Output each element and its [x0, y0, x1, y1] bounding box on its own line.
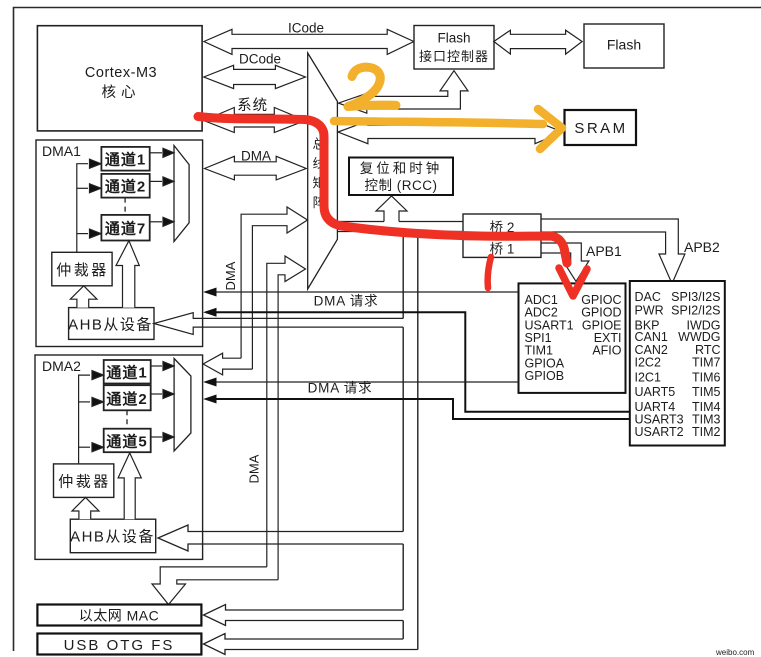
svg-text:ICode: ICode: [288, 20, 324, 35]
wire B bottom channel and down arrow into MAC: [152, 567, 278, 605]
svg-text:APB2: APB2: [684, 239, 720, 255]
wire A: DMA2 master port wire to matrix (vertical pair x 241/252): [203, 207, 307, 375]
wire B: matrix to ethernet MAC (vertical pair x 267/278): [152, 256, 306, 605]
svg-text:DAC: DAC: [635, 290, 661, 304]
svg-text:接口控制器: 接口控制器: [419, 49, 489, 64]
svg-text:AFIO: AFIO: [592, 344, 621, 358]
svg-text:控制 (RCC): 控制 (RCC): [365, 178, 438, 193]
SRAM box: [565, 110, 637, 145]
svg-text:AHB从设备: AHB从设备: [68, 317, 153, 334]
red arrowhead down into APB1: [559, 268, 587, 296]
orange long arrow to SRAM: [334, 121, 543, 124]
svg-text:APB1: APB1: [586, 243, 622, 259]
svg-text:TIM6: TIM6: [692, 370, 721, 384]
svg-text:UART5: UART5: [635, 385, 676, 399]
svg-text:系统: 系统: [237, 97, 268, 114]
svg-text:DMA2: DMA2: [42, 358, 81, 374]
svg-text:仲裁器: 仲裁器: [56, 262, 109, 279]
ethernet MAC box: [37, 605, 201, 626]
svg-text:USB OTG FS: USB OTG FS: [64, 637, 175, 654]
APB2 wire from bridge2 to APB2 peripherals: [541, 219, 685, 284]
DMA2 channel2 box: [104, 385, 151, 410]
DMA2 arbiter box: [54, 464, 114, 498]
V1 right vertical: [417, 232, 419, 650]
svg-text:DCode: DCode: [239, 52, 281, 67]
DMA2 channel1 box: [104, 360, 151, 384]
svg-text:SPI2/I2S: SPI2/I2S: [671, 304, 720, 318]
DMA1 AHB slave arrow from V1 wire: [154, 313, 403, 335]
svg-text:DMA1: DMA1: [42, 143, 81, 159]
DMA2 arbiter feeder line and arrows: [79, 371, 104, 464]
svg-text:DMA: DMA: [241, 149, 271, 164]
svg-text:桥 1: 桥 1: [490, 242, 515, 257]
APB1 wire from bridge1 to APB1 peripherals: [541, 243, 589, 281]
svg-text:复位和时钟: 复位和时钟: [360, 160, 443, 176]
DMA1 AHB to channel7 hollow up arrow: [116, 241, 139, 308]
red annotation: system path stroke: [198, 117, 587, 297]
RCC box: [349, 158, 453, 196]
svg-text:TIM2: TIM2: [692, 425, 721, 439]
DMA1 arbiter box: [52, 252, 112, 285]
DMA request line 1 bold (to APB2 box): [203, 308, 630, 412]
svg-text:TIM7: TIM7: [692, 356, 721, 370]
DMA1 arbiter feeder line and arrows: [77, 159, 101, 252]
DCode bus double arrow: [204, 52, 306, 89]
wire B top arrow into matrix: [267, 256, 306, 580]
DMA2 outer box: [35, 355, 203, 559]
DMA1 channel2 box: [101, 174, 149, 198]
Cortex-M3 core box: [37, 26, 202, 131]
svg-text:GPIOB: GPIOB: [525, 369, 565, 383]
svg-text:I2C2: I2C2: [635, 356, 661, 370]
DMA request line 2 (thin, to APB1 box): [203, 378, 518, 387]
svg-text:通道1: 通道1: [106, 364, 147, 382]
ICode bus double arrow: [204, 20, 414, 54]
Flash memory box: [584, 24, 664, 68]
svg-text:仲裁器: 仲裁器: [58, 474, 111, 491]
svg-text:Flash: Flash: [437, 31, 470, 46]
svg-text:DMA: DMA: [223, 261, 238, 290]
DMA request line 2 bold (to APB2 box): [203, 395, 630, 420]
ethernet MAC arrow from V1: [204, 605, 404, 626]
svg-text:SPI3/I2S: SPI3/I2S: [671, 290, 720, 304]
bridge 1 box: [463, 239, 541, 257]
DMA1 channel7 box: [101, 215, 149, 241]
DMA2 channel to funnel arrows: [151, 362, 174, 442]
bridge 2 box: [463, 214, 541, 239]
svg-text:weibo.com: weibo.com: [715, 648, 755, 657]
DMA1 funnel: [174, 146, 189, 242]
svg-text:USART2: USART2: [635, 425, 684, 439]
svg-text:TIM5: TIM5: [692, 385, 721, 399]
wire matrix to SRAM double arrow: [338, 121, 563, 144]
dashed line channels DMA1: [124, 198, 126, 215]
svg-text:通道5: 通道5: [106, 433, 147, 451]
wire V1: bridge wire down to DMA1 AHB / DMA2 AHB / MAC / USB: [403, 232, 418, 650]
DMA2 AHB to arbiter hollow up arrow: [72, 497, 99, 519]
bus matrix shape: [308, 53, 338, 289]
DMA1 channel1 box: [101, 147, 149, 171]
Flash interface controller box: [414, 26, 494, 70]
DMA2 channel5 box: [104, 429, 151, 453]
APB1 peripheral box: [519, 283, 626, 393]
Flash ctrl to Flash double arrow: [494, 30, 582, 54]
svg-text:SRAM: SRAM: [574, 120, 627, 137]
svg-text:通道2: 通道2: [106, 390, 147, 408]
RCC up arrow from bridge wire: [376, 196, 407, 222]
svg-text:Cortex-M3: Cortex-M3: [85, 65, 157, 81]
orange annotation: handwritten 2: [334, 67, 562, 149]
svg-text:PWR: PWR: [635, 304, 664, 318]
svg-text:DMA 请求: DMA 请求: [308, 381, 373, 396]
system bus double arrow: [204, 97, 306, 133]
DMA1 AHB to arbiter hollow up arrow: [70, 286, 97, 308]
wire matrix to flash interface (elbow, arrow up + arrow left): [338, 71, 468, 114]
V1 left vertical segments: [402, 232, 404, 319]
dashed line channels DMA2: [126, 410, 128, 428]
svg-text:AHB从设备: AHB从设备: [70, 529, 155, 546]
DMA2 AHB to channel5 hollow up arrow: [118, 453, 141, 519]
svg-text:I2C1: I2C1: [635, 370, 661, 384]
DMA1 channel to funnel arrows: [150, 148, 174, 226]
bridge wire from matrix: [337, 222, 463, 232]
svg-text:以太网 MAC: 以太网 MAC: [79, 608, 160, 624]
svg-text:通道1: 通道1: [105, 151, 146, 169]
DMA2 funnel: [174, 359, 191, 452]
DMA1 AHB slave box: [68, 308, 154, 340]
wire A bottom arrow into DMA2 funnel: [203, 353, 252, 375]
DMA1 outer box: [36, 140, 203, 347]
svg-text:核心: 核心: [102, 84, 141, 101]
svg-text:通道2: 通道2: [105, 178, 146, 196]
APB2 peripheral box: [630, 281, 725, 446]
svg-text:Flash: Flash: [607, 37, 641, 53]
USB OTG FS box: [37, 634, 201, 655]
DMA request line 1 (thin, to APB1 box): [203, 288, 518, 297]
USB arrow from V1: [204, 634, 418, 655]
DMA2 AHB arrow from V1: [158, 525, 403, 551]
svg-text:DMA 请求: DMA 请求: [314, 294, 379, 309]
DMA bus double arrow: [205, 149, 307, 180]
wire A top arrow into matrix: [241, 207, 307, 369]
DMA2 AHB slave box: [70, 519, 156, 553]
svg-text:DMA: DMA: [247, 454, 262, 483]
red dash below bridge1: [488, 257, 491, 288]
svg-text:通道7: 通道7: [105, 220, 146, 238]
